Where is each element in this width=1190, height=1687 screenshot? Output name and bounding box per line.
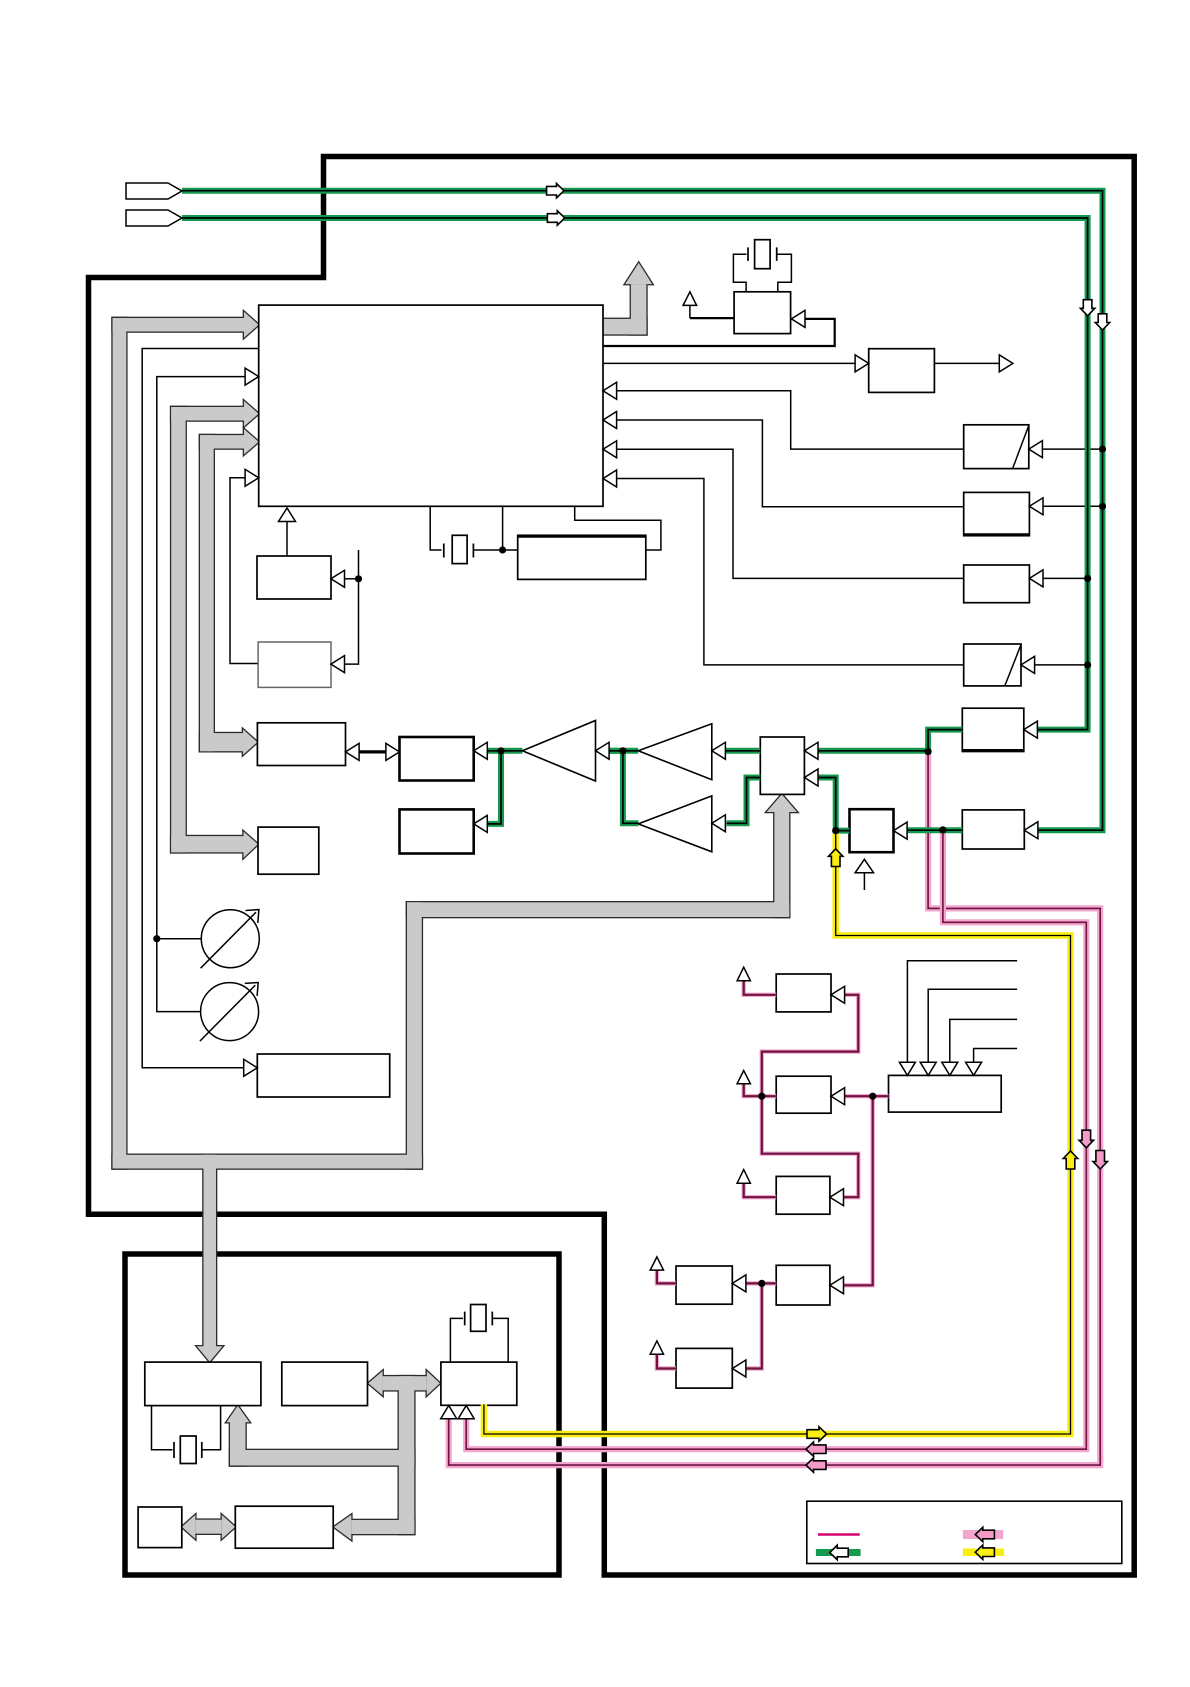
maroon wire to M4 (844, 1096, 873, 1285)
maroon wire Vcc to M3 (744, 1183, 777, 1197)
box R3 (964, 565, 1030, 603)
deck box DL3 (syscon) (441, 1362, 517, 1405)
detector box (bold) (400, 737, 474, 781)
wire buffer output port (934, 362, 999, 364)
wire deck crystal X2 left (152, 1406, 173, 1450)
amplifier triangle A2 (638, 796, 712, 852)
marker yellow right bus (807, 1427, 827, 1441)
arrow into block B (331, 656, 345, 673)
wire main IC to oscillator box (603, 319, 835, 346)
antenna connector J2 (126, 210, 182, 226)
wire loop to block B input (345, 550, 359, 664)
audio box M3 (776, 1176, 830, 1214)
crystal X2 body (180, 1436, 196, 1464)
audio box M2 (776, 1076, 831, 1113)
detector box 2 (bold) (400, 809, 474, 853)
junction varicap (153, 935, 160, 942)
arrow into A2 (712, 815, 726, 832)
gray parallel-bus network (fill pass) (113, 263, 797, 1540)
junction D1 tap (1099, 446, 1106, 453)
box R5 (bold bottom) (962, 708, 1024, 751)
arrow into M3 (830, 1189, 844, 1206)
Vcc symbol M2 (737, 1071, 750, 1084)
arrow into buffer box (855, 355, 869, 372)
maroon wire branch to M6 (746, 1283, 762, 1368)
legend yellow bar (963, 1549, 1004, 1557)
legend pink arrow (975, 1527, 994, 1541)
arrow matrix in 3 (942, 1062, 958, 1075)
IF box 2 (258, 827, 319, 874)
pink bus A (449, 754, 1100, 1465)
crystal X4 right electrode (776, 247, 778, 261)
junction D2 tap (1084, 661, 1091, 668)
marker yellow up right side (1063, 1151, 1077, 1169)
Vcc symbol M3 (737, 1170, 750, 1184)
green wire to mixer in1 (818, 748, 928, 754)
maroon wire Vcc to M1 (744, 981, 777, 995)
maroon wire Vcc to M2 (744, 1084, 777, 1097)
mixer box (760, 737, 804, 794)
wire varicap bus to main IC (157, 377, 245, 1012)
green wire branch to detector 2 (487, 751, 501, 824)
crystal X3 right electrode (491, 1312, 493, 1326)
arrow into A1 (712, 742, 726, 759)
junction R3 tap (1084, 575, 1091, 582)
green wire mixer out to A1 (725, 748, 760, 754)
arrow matrix in 4 (966, 1062, 982, 1075)
audio box M1 (776, 974, 831, 1012)
arrow matrix in 2 (920, 1062, 936, 1075)
wire box R2 tap (1043, 505, 1103, 507)
arrow into main IC r4 (603, 470, 617, 487)
delay box D1 (964, 425, 1029, 469)
oscillator box U2 (734, 292, 791, 334)
amplifier triangle A1 (638, 724, 712, 780)
deck box DL4 (138, 1507, 182, 1548)
arrow into tuning display box (244, 1059, 258, 1076)
amplifier triangle A3 (522, 721, 595, 782)
junction amp node 2 (497, 747, 504, 754)
legend yellow arrow (975, 1545, 994, 1559)
matrix box (889, 1075, 1002, 1112)
wire matrix feed 1 (907, 961, 1017, 1063)
arrow into oscillator box (791, 310, 805, 327)
arrow into detector box (474, 742, 488, 759)
junction maroon c (758, 1280, 765, 1287)
marker white down green1 (1095, 314, 1109, 330)
crystal X1 left electrode (443, 544, 445, 558)
wire box R3 tap (1043, 577, 1088, 579)
crystal X2 left electrode (173, 1442, 175, 1458)
wire varicap branch (157, 938, 202, 940)
arrow into delay D2 (1021, 656, 1035, 673)
junction green-yellow (832, 827, 839, 834)
deck mechanism block border (125, 1254, 559, 1575)
arrow into M6 (732, 1360, 746, 1377)
junction green-pink B (939, 826, 946, 833)
arrow into box R6 (1024, 822, 1038, 839)
marker pink down B (1079, 1130, 1093, 1148)
marker white right green2 (547, 211, 564, 225)
wire matrix feed 3 (950, 1019, 1017, 1062)
arrow into main IC in6 (245, 469, 259, 486)
wire main IC pin to tuning box (142, 349, 259, 1068)
crystal X3 left electrode (464, 1312, 466, 1326)
stem control switch box (863, 873, 865, 890)
marker white down green2 (1080, 300, 1094, 316)
arrow into DL3 pink 2 (458, 1406, 474, 1419)
audio box M4 (776, 1265, 830, 1305)
wire crystal X1 left pin (430, 506, 441, 550)
arrow into main IC r1 (603, 382, 617, 399)
wire IF box pair link (358, 750, 387, 753)
green wire switch out (818, 778, 850, 831)
junction block A tap (355, 575, 362, 582)
deck box DL1 (servo) (145, 1362, 261, 1406)
junction green-pink A (925, 748, 932, 755)
arrow into M1 (831, 986, 845, 1003)
junction amp node 1 (619, 747, 626, 754)
green wire A2 out (623, 751, 639, 824)
green wire R5 out (928, 730, 962, 751)
wire delay box D1 tap (1042, 448, 1102, 450)
arrow into main IC r3 (603, 441, 617, 458)
yellow control line (484, 834, 1071, 1434)
deck box DL5 (235, 1506, 333, 1548)
stem Vcc osc (689, 305, 691, 318)
green wire mixer out2 to A2 (727, 778, 761, 824)
crystal X4 body (755, 240, 771, 269)
wire X1 node to main IC pin (502, 506, 504, 550)
crystal X1 right electrode (472, 544, 474, 558)
wire delay D2 out to main IC (617, 479, 964, 665)
wire osc crystal X4 right (777, 254, 792, 292)
arrow into delay D1 (1029, 441, 1043, 458)
Vcc symbol osc (683, 292, 697, 306)
legend pink bar (963, 1530, 1003, 1539)
wire Vcc to oscillator box (690, 317, 734, 319)
wire delay D1 out to main IC (617, 391, 964, 449)
audio box M5 (676, 1266, 732, 1304)
block A (AFC) (257, 556, 331, 599)
green wire A1 out (609, 748, 638, 754)
wire main IC wraparound to VCO box (575, 506, 661, 550)
arrow into main IC in3 (245, 368, 259, 385)
deck box DL2 (282, 1362, 368, 1406)
green wire A3 in (609, 748, 623, 754)
crystal X4 left electrode (747, 247, 749, 261)
maroon wire M1 in (762, 995, 859, 1096)
arrow into block A (331, 570, 345, 587)
green wire A3 out to detector (487, 748, 522, 754)
block B (reference osc) (258, 642, 331, 687)
marker pink left bus2 (806, 1458, 826, 1472)
legend box (807, 1501, 1122, 1563)
wire tap to block A (345, 578, 359, 580)
tuning display box (257, 1054, 389, 1097)
junction X1 node (499, 546, 506, 553)
arrow into A3 (596, 742, 610, 759)
arrow into M2 (831, 1088, 845, 1105)
arrow into detector box 2 (474, 815, 488, 832)
arrow buffer output port (999, 355, 1013, 372)
wire deck crystal X2 right (202, 1406, 221, 1450)
box R6 (962, 810, 1024, 849)
wire matrix feed 4 (974, 1049, 1018, 1063)
arrow into M5 (732, 1275, 746, 1292)
switch box (bold) (850, 809, 894, 852)
Vcc symbol M1 (737, 967, 750, 981)
Vcc symbol M6 (650, 1341, 663, 1354)
box R2 (bold bottom) (964, 492, 1030, 535)
marker white right green1 (547, 184, 564, 198)
junction maroon b (869, 1093, 876, 1100)
crystal X1 body (452, 535, 467, 563)
maroon wire Vcc to M5 (657, 1270, 676, 1283)
maroon wire M4 out to M5 (746, 1281, 776, 1285)
maroon wire Vcc to M6 (657, 1354, 676, 1368)
legend green bar (816, 1549, 861, 1556)
arrow IF box pair right (386, 743, 400, 760)
Vcc symbol switch box (855, 859, 874, 873)
outer system border (main block outline) (89, 157, 1135, 1576)
main IC U1 (259, 305, 603, 506)
Vcc symbol main IC bottom (279, 508, 296, 522)
junction maroon a (758, 1093, 765, 1100)
arrow matrix in 1 (899, 1062, 915, 1075)
legend crimson line (818, 1533, 860, 1535)
IF box (257, 723, 345, 766)
antenna connector J1 (126, 183, 182, 199)
wire osc block B output to main IC (230, 478, 258, 664)
legend green arrow (830, 1545, 849, 1559)
crystal X2 right electrode (201, 1442, 203, 1458)
variable capacitor VC1 (201, 910, 259, 968)
arrow into main IC r2 (603, 412, 617, 429)
arrow into box R5 (1024, 721, 1038, 738)
arrow IF box pair left (346, 743, 360, 760)
arrow into mixer in2 (804, 769, 818, 786)
maroon wire matrix out (845, 1094, 889, 1098)
marker yellow up near switch (829, 849, 843, 867)
green RF line 2 (182, 218, 1088, 730)
wire box R3 out to main IC (617, 449, 964, 578)
arrow into box R3 (1029, 570, 1043, 587)
wire deck crystal X3 left (450, 1318, 463, 1362)
arrow into mixer in1 (804, 742, 818, 759)
delay box D2 (964, 644, 1021, 686)
wire deck crystal X3 right (492, 1318, 508, 1362)
wire delay box D2 tap (1035, 664, 1088, 666)
marker pink left bus1 (806, 1442, 826, 1456)
wire main IC to buffer box (603, 362, 855, 364)
marker pink down A (1093, 1151, 1107, 1170)
arrow into switch box (894, 822, 908, 839)
gray parallel-bus network (outline pass) (113, 263, 797, 1540)
wire main IC to block A stem (286, 521, 288, 556)
VCO box (bold top) (518, 535, 646, 579)
crystal X3 body (471, 1305, 486, 1332)
arrow into M4 (830, 1277, 844, 1294)
audio box M6 (676, 1348, 732, 1388)
wire osc crystal X4 left (733, 254, 746, 292)
maroon wire to M3 (762, 1096, 859, 1197)
Vcc symbol M5 (650, 1257, 663, 1270)
junction R2 tap (1099, 503, 1106, 510)
green RF line 1 (182, 191, 1103, 831)
buffer box (869, 349, 935, 393)
wire matrix feed 2 (928, 989, 1017, 1062)
arrow into DL3 pink 1 (441, 1406, 457, 1419)
arrow into box R2 (1029, 498, 1043, 515)
green wire R6 out to switch (907, 827, 963, 833)
pink bus B (466, 832, 1086, 1449)
variable capacitor VC2 (201, 983, 259, 1041)
wire box R2 out to main IC (617, 420, 964, 507)
wire crystal X1 to VCO box (473, 549, 517, 551)
